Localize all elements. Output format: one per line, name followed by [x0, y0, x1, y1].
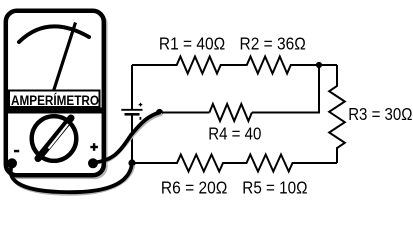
svg-text:R1 = 40Ω: R1 = 40Ω [159, 35, 225, 54]
svg-text:R2 = 36Ω: R2 = 36Ω [240, 35, 306, 54]
svg-text:R3 = 30Ω: R3 = 30Ω [348, 105, 412, 124]
svg-text:AMPERÍMETRO: AMPERÍMETRO [11, 92, 99, 108]
svg-text:R6 = 20Ω: R6 = 20Ω [161, 179, 228, 198]
svg-text:R4 = 40: R4 = 40 [208, 124, 261, 143]
svg-text:R5 = 10Ω: R5 = 10Ω [242, 178, 307, 197]
